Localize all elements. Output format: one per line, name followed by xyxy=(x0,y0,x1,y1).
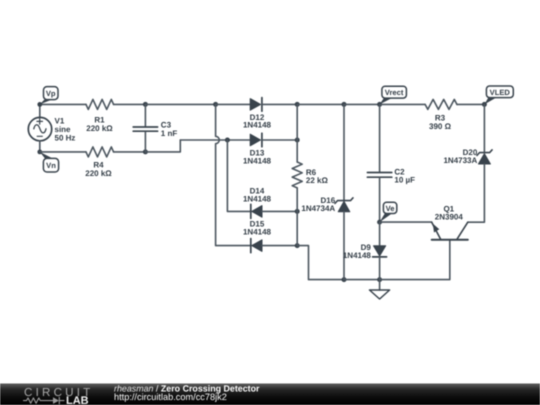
wire D16 bottom to ground node xyxy=(344,279,380,281)
wire D9 to ground node xyxy=(379,257,381,280)
svg-text:1N4148: 1N4148 xyxy=(243,121,272,130)
junction ground node xyxy=(377,277,382,282)
value label D16 1N4734A xyxy=(301,196,335,213)
wire node A to D12 xyxy=(216,103,251,105)
wire R1 to C3 top xyxy=(114,103,146,105)
value label D14 1N4148 xyxy=(243,187,272,204)
value label R4 220 kOhm xyxy=(85,160,112,177)
junction C3 bottom xyxy=(143,149,148,154)
junction C3 top xyxy=(143,102,148,107)
wire Vp node to V1 xyxy=(39,104,41,117)
svg-text:Ve: Ve xyxy=(386,204,395,213)
wire bus lower xyxy=(296,188,298,246)
value label D9 1N4148 xyxy=(343,243,372,260)
wire D13 to bus xyxy=(262,139,297,141)
junction D16 top xyxy=(342,102,347,107)
footer bar xyxy=(0,384,540,405)
wire D15 to bus end xyxy=(262,245,297,247)
junction bus top xyxy=(295,102,300,107)
svg-text:22 kΩ: 22 kΩ xyxy=(306,176,329,185)
svg-text:VLED: VLED xyxy=(490,88,511,97)
node label VLED xyxy=(484,86,513,104)
value label V1 sine 50 Hz xyxy=(55,117,76,143)
zener diode D16 xyxy=(335,198,353,212)
resistor R6 xyxy=(292,162,302,188)
junction D16 bottom xyxy=(342,277,347,282)
svg-text:Vn: Vn xyxy=(46,161,56,170)
junction Ve node xyxy=(377,220,382,225)
wire R3 to VLED node xyxy=(457,103,485,105)
svg-text:390 Ω: 390 Ω xyxy=(429,122,452,131)
svg-text:http://circuitlab.com/cc78jk2: http://circuitlab.com/cc78jk2 xyxy=(114,392,227,402)
wire vertical B to D14 xyxy=(227,140,250,211)
diode D9 xyxy=(373,246,387,257)
wire V1 to Vn node xyxy=(39,141,41,152)
wire D12 to bus xyxy=(262,103,297,105)
svg-text:1N4733A: 1N4733A xyxy=(443,156,477,165)
svg-text:1N4148: 1N4148 xyxy=(243,157,272,166)
junction D15 bus xyxy=(295,243,300,248)
diode D14 xyxy=(251,204,262,218)
svg-text:1 nF: 1 nF xyxy=(161,129,178,138)
svg-text:10 µF: 10 µF xyxy=(394,176,415,185)
value label R3 390 Ohm xyxy=(429,114,452,131)
svg-text:Vrect: Vrect xyxy=(385,88,404,97)
wire vertical A with hop xyxy=(216,104,251,245)
node label Vrect xyxy=(380,86,407,104)
value label C3 1 nF xyxy=(161,121,178,138)
diode D12 xyxy=(250,98,262,112)
diode D13 xyxy=(250,133,262,147)
wire Vrect node to R3 xyxy=(380,103,426,105)
wire Ve node to D9 xyxy=(379,222,381,246)
wire bus upper xyxy=(296,104,298,162)
junction Vp xyxy=(37,102,42,107)
svg-text:Vp: Vp xyxy=(46,89,56,98)
wire ground node to Q1 base xyxy=(380,240,450,280)
wire jog D15 to bottom bus xyxy=(297,246,344,280)
wire C3 top to node A xyxy=(145,103,215,105)
resistor R3 xyxy=(425,99,457,109)
zener diode D20 xyxy=(477,150,492,164)
wire Vn node to R4 xyxy=(40,151,86,153)
ground xyxy=(370,280,390,299)
diode D15 xyxy=(251,239,262,253)
svg-text:1N4148: 1N4148 xyxy=(343,251,372,260)
svg-text:220 kΩ: 220 kΩ xyxy=(86,124,113,133)
value label R1 220 kOhm xyxy=(86,116,113,133)
junction node A xyxy=(213,102,218,107)
resistor R1 xyxy=(86,99,114,109)
junction D14 bus xyxy=(295,209,300,214)
wire C2 to Ve node xyxy=(379,178,381,222)
wire R4 to C3 bottom xyxy=(114,151,146,153)
junction D13 bus xyxy=(295,138,300,143)
svg-text:1N4148: 1N4148 xyxy=(243,194,272,203)
svg-text:LAB: LAB xyxy=(66,395,89,405)
wire Vrect to C2 xyxy=(379,104,381,172)
capacitor C2 xyxy=(367,173,391,178)
wire D16 top to Vrect node xyxy=(344,103,380,105)
junction Vn xyxy=(37,150,42,155)
value label C2 10 uF xyxy=(394,168,415,185)
value label R6 22 kOhm xyxy=(306,168,329,185)
wire Vp node to R1 xyxy=(40,103,86,105)
resistor R4 xyxy=(86,147,114,157)
svg-text:1N4734A: 1N4734A xyxy=(301,204,335,213)
node label Ve xyxy=(380,202,397,222)
value label D12 1N4148 xyxy=(243,113,272,130)
transistor Q1 xyxy=(432,222,468,240)
wire D20 to Q1 collector xyxy=(468,164,485,222)
wire step to D13 row xyxy=(180,139,250,141)
wire C3 bottom to step up xyxy=(145,140,180,152)
logo resistor-diode glyph xyxy=(24,397,65,404)
svg-text:2N3904: 2N3904 xyxy=(435,212,464,221)
svg-text:220 kΩ: 220 kΩ xyxy=(85,169,112,178)
wire bus top to D16 top xyxy=(297,103,344,105)
junction node B xyxy=(225,138,230,143)
value label D13 1N4148 xyxy=(243,149,272,166)
svg-text:50 Hz: 50 Hz xyxy=(55,133,76,142)
junction Vrect node xyxy=(377,102,382,107)
node label Vp xyxy=(40,87,58,105)
wire VLED node to D20 xyxy=(483,104,485,151)
wire D16 branch top xyxy=(343,104,345,200)
value label Q1 2N3904 xyxy=(435,204,464,221)
value label D15 1N4148 xyxy=(243,219,272,236)
junction VLED node xyxy=(482,102,487,107)
wire Ve node to Q1 emitter xyxy=(380,221,432,223)
svg-text:1N4148: 1N4148 xyxy=(243,227,272,236)
node label Vn xyxy=(40,152,59,172)
value label D20 1N4733A xyxy=(443,148,477,165)
voltage source V1 xyxy=(28,117,51,140)
wire D16 branch bottom xyxy=(343,212,345,280)
capacitor C3 xyxy=(133,104,157,151)
wire D14 to bus xyxy=(262,210,297,212)
